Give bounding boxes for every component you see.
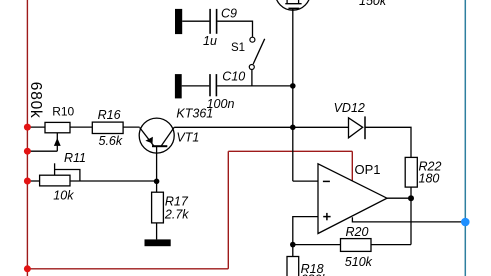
R10 wiper arrow xyxy=(27,133,60,151)
wire input1 to C9 xyxy=(182,20,209,22)
svg-text:510k: 510k xyxy=(345,255,373,269)
wire VT1 emitter to VD12 xyxy=(174,126,348,128)
wire red net feedback vertical xyxy=(227,151,229,268)
wire op-amp to blue rail xyxy=(352,217,465,222)
wire non-inverting input xyxy=(293,217,318,245)
svg-text:10k: 10k xyxy=(53,189,74,203)
wire to op-amp inverting input xyxy=(293,180,318,182)
svg-text:150k: 150k xyxy=(359,0,387,8)
svg-text:VT1: VT1 xyxy=(176,131,199,145)
resistor R22 xyxy=(405,157,417,187)
wire op-amp output xyxy=(387,197,411,199)
svg-text:R16: R16 xyxy=(98,108,121,122)
wire blue rail vertical xyxy=(464,0,466,276)
node blue junction xyxy=(461,218,470,227)
wire VD12 to R22 xyxy=(365,127,411,157)
node red junction 3 xyxy=(24,178,31,185)
svg-text:S1: S1 xyxy=(231,42,245,54)
diode VD12 xyxy=(349,116,366,139)
svg-text:R11: R11 xyxy=(64,151,86,165)
wire main vertical from VT2 xyxy=(292,8,294,181)
connector bar input 1 xyxy=(175,9,182,34)
wire red net bottom horizontal xyxy=(27,268,228,270)
wire R16 to VT1 base xyxy=(123,126,140,128)
wire input2 to C10 xyxy=(182,85,210,87)
svg-text:VD12: VD12 xyxy=(334,101,365,115)
resistor R11 (trimmer) xyxy=(27,163,156,186)
resistor R16 xyxy=(92,122,123,133)
svg-text:OP1: OP1 xyxy=(355,162,381,177)
capacitor C9 xyxy=(210,9,217,34)
transistor VT2 (top, partially cut) xyxy=(275,0,310,10)
svg-text:680k: 680k xyxy=(27,82,44,119)
node D output junction xyxy=(408,195,414,201)
node E junction xyxy=(290,242,296,248)
node red junction 2 xyxy=(24,148,31,155)
svg-text:1u: 1u xyxy=(203,34,217,48)
capacitor C10 xyxy=(210,74,216,96)
svg-text:5.6k: 5.6k xyxy=(99,134,123,148)
node red junction 4 xyxy=(24,265,31,272)
wire red net left vertical xyxy=(26,0,28,276)
svg-text:C9: C9 xyxy=(221,6,237,20)
op-amp OP1 xyxy=(318,164,387,234)
resistor R10 (trimmer) xyxy=(27,122,70,132)
node A junction xyxy=(290,83,296,89)
connector bar input 2 xyxy=(175,74,182,98)
svg-text:680k: 680k xyxy=(301,273,329,276)
wire output node down to R20 xyxy=(410,198,412,244)
wire red net feedback horizontal xyxy=(228,150,352,152)
switch S1 xyxy=(249,37,264,69)
wire R20 to output node xyxy=(371,244,411,246)
wire C9 to S1 xyxy=(217,21,252,37)
ground xyxy=(145,239,171,246)
node red junction 1 xyxy=(24,124,31,131)
wire S1 to C10 net xyxy=(251,70,253,86)
node B junction xyxy=(290,125,296,131)
node C junction xyxy=(154,179,160,185)
transistor VT1 KT361 xyxy=(139,118,174,181)
wire node E to R20 xyxy=(293,244,341,246)
resistor R18 (cut at bottom) xyxy=(287,245,299,276)
svg-text:KT361: KT361 xyxy=(176,107,213,121)
wire R10 to R16 xyxy=(70,126,92,128)
wire R22 to output node xyxy=(410,187,412,198)
resistor R20 xyxy=(341,239,372,252)
wire red net drop to op-amp xyxy=(351,151,353,180)
wire C10 to node A xyxy=(217,85,293,87)
svg-text:R20: R20 xyxy=(346,225,369,239)
resistor R17 xyxy=(152,181,164,239)
svg-text:R10: R10 xyxy=(52,104,74,118)
svg-text:C10: C10 xyxy=(222,70,245,84)
svg-text:180: 180 xyxy=(419,171,440,185)
svg-text:2.7k: 2.7k xyxy=(164,207,189,221)
